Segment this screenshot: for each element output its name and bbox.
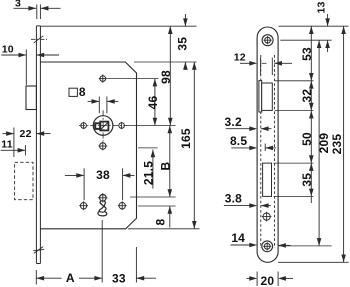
extension line top screw [107, 78, 159, 80]
extension line case top [134, 61, 197, 63]
lower screw right [118, 201, 127, 210]
dim 11 (deadbolt throw) [1, 139, 26, 156]
dim 165 (case height) [179, 62, 197, 229]
svg-text:3.2: 3.2 [225, 115, 242, 129]
top fixing screw [262, 35, 273, 46]
extension line top screw centre [280, 39, 331, 41]
svg-text:38: 38 [96, 168, 110, 182]
extension line latch bottom [275, 110, 314, 112]
svg-text:20: 20 [261, 274, 275, 287]
dim 38 (lower screw spacing) [65, 168, 135, 200]
extension line mid 148 [138, 147, 158, 149]
bottom fixing screw [262, 241, 273, 252]
extension line latch top [275, 80, 314, 82]
follower square spindle hole [95, 122, 108, 131]
svg-text:21.5: 21.5 [141, 161, 155, 185]
deadbolt opening front [263, 163, 272, 196]
dim 8 follower square width [88, 97, 119, 114]
dim 8 (cylinder to lower screws) [154, 206, 172, 228]
latch bolt head front [259, 81, 262, 112]
follower centrelines [79, 110, 127, 141]
dim 21.5 [141, 150, 155, 189]
dim 20 (faceplate width) [247, 272, 294, 287]
label square 8 (spindle) [69, 85, 86, 99]
extension line bottom screw centre [279, 245, 332, 247]
dim 235 (faceplate length) [330, 26, 346, 262]
side screw left of follower [81, 122, 87, 129]
svg-text:8: 8 [79, 85, 86, 99]
side screw right of follower [119, 122, 125, 129]
svg-text:8.5: 8.5 [230, 134, 247, 148]
dim A (backset) and 33 [36, 220, 156, 286]
faceplate break mark bottom [33, 247, 44, 254]
extension line faceplate top [40, 25, 196, 27]
dim chain 53-32-50-35 [300, 26, 314, 203]
svg-text:98: 98 [159, 70, 173, 84]
lower screw left [79, 201, 88, 210]
dim B (follower to cylinder) [158, 126, 172, 198]
extension line follower centre [127, 125, 176, 127]
dim 46 (top screw to follower) [146, 79, 160, 126]
svg-text:12: 12 [234, 51, 246, 63]
cylinder fixing screw [262, 212, 272, 222]
svg-text:13: 13 [316, 1, 328, 13]
faceplate break mark top [31, 36, 47, 43]
svg-text:10: 10 [2, 43, 14, 55]
svg-text:3: 3 [15, 0, 21, 10]
svg-text:53: 53 [300, 47, 314, 61]
dim 98 (faceplate top to follower) [159, 26, 173, 125]
case screw top [99, 75, 107, 83]
extension line deadbolt top [274, 162, 314, 164]
svg-text:165: 165 [179, 128, 193, 149]
striking faceplate outline (front view) [257, 27, 278, 262]
dim 8.5 (latch face offset) [230, 134, 276, 151]
svg-text:3.8: 3.8 [225, 192, 242, 206]
extension line stadium bottom [278, 261, 348, 263]
svg-text:35: 35 [175, 37, 189, 51]
dim 209 (screw spacing) [317, 40, 331, 246]
dim 13 (top screw offset) [316, 1, 330, 52]
svg-text:8: 8 [154, 218, 168, 225]
dim 12 (case top width) [234, 51, 292, 75]
case screw middle [98, 142, 107, 151]
hidden lock case edge left (dashed) [260, 55, 262, 248]
latch bolt body front [262, 83, 273, 110]
extension line stadium top [279, 25, 349, 27]
extension line case bottom [128, 228, 200, 230]
svg-text:A: A [66, 271, 75, 285]
profile cylinder symbol [98, 193, 108, 216]
svg-text:50: 50 [300, 132, 314, 146]
svg-text:B: B [158, 161, 172, 170]
dim 10 (latch projection) [1, 43, 59, 85]
deadbolt thrown position (dashed) [15, 162, 33, 199]
svg-text:11: 11 [1, 139, 13, 151]
dim 14 (bottom case width) [231, 231, 291, 248]
faceplate strip (side view) [36, 26, 40, 264]
dim 22 (deadbolt projection) [3, 128, 51, 158]
lock case outline [40, 62, 136, 229]
svg-text:235: 235 [330, 134, 344, 155]
svg-text:33: 33 [112, 272, 126, 286]
dim 3.2 (faceplate thickness front) [225, 115, 272, 131]
svg-text:32: 32 [300, 89, 314, 103]
latch bolt (retracted) [26, 86, 36, 110]
dim 3.8 (screw offset) [224, 192, 271, 208]
svg-text:46: 46 [146, 96, 160, 110]
extension line lower screws [138, 205, 176, 207]
svg-text:22: 22 [20, 128, 32, 140]
follower hub [93, 116, 113, 136]
dim 3 (faceplate thickness) [14, 0, 61, 19]
extension line deadbolt bottom [274, 195, 314, 197]
hidden lock case edge right (dashed) [274, 55, 276, 248]
svg-text:35: 35 [300, 173, 314, 187]
dim 35 (faceplate top to case top) [175, 14, 189, 70]
svg-text:14: 14 [231, 231, 245, 245]
extension line cylinder centre [130, 196, 176, 198]
